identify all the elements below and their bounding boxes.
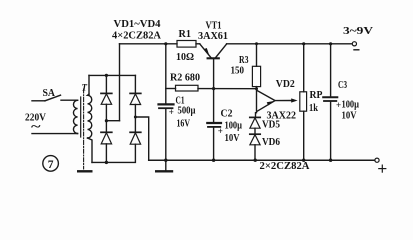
transistor VT1 emitter [200,44,211,58]
minus sign [354,49,359,51]
wire: R3 bottom lead [256,87,258,89]
diode VD1 (bridge top-left) [101,93,112,104]
node: C2 on bottom rail [212,159,215,162]
transistor VT1 base bar [208,57,219,59]
node: left column midpoint [105,119,108,122]
wire: bottom rail [149,159,375,161]
transistor VD2 collector lead [257,90,275,100]
wire: C1 bottom lead to ground [165,109,167,170]
wire: left column middle [105,104,107,132]
node: C1 on bottom rail [164,159,167,162]
resistor R2 [176,85,199,91]
wire: 220V top lead [32,100,45,102]
wire: left column bottom [105,144,107,163]
node: RP tap on top rail [302,42,305,45]
svg-text:+: + [169,107,174,117]
svg-text:500µ: 500µ [178,106,196,117]
svg-text:100µ: 100µ [225,121,243,132]
wire: 220V bottom lead [32,133,78,135]
wire: right column top [134,75,136,93]
svg-text:10V: 10V [342,111,358,122]
svg-text:150: 150 [231,66,245,77]
wire: bridge AC top node [89,74,135,76]
symbol: circled 7 [43,156,59,172]
transistor VD2 base bar [256,89,258,113]
svg-text:10V: 10V [225,133,241,144]
wire: C1 top lead [165,44,167,103]
svg-text:SA: SA [43,88,56,99]
transformer T primary winding [73,100,77,133]
wire: right column middle [134,105,136,133]
capacitor C1 plates [159,103,174,105]
svg-text:T: T [82,83,88,93]
ground (main) [156,170,172,172]
diode VD5 [250,117,260,128]
diode VD4 (bridge bottom-right) [130,132,141,144]
node: C1/R2 tap on top rail [164,42,167,45]
wire: switch to transformer primary [61,99,78,101]
svg-text:R1: R1 [179,29,192,40]
node: base/R2/C2 junction [212,87,215,90]
node: right column midpoint [134,116,137,119]
svg-text:VD2: VD2 [276,79,295,90]
wire: VD2 emitter to RP wiper [275,100,293,102]
resistor R1 [177,41,196,48]
svg-text:7: 7 [48,159,54,171]
node: VD6 on bottom rail [254,159,257,162]
switch SA blade [45,95,61,101]
svg-text:16V: 16V [177,119,191,130]
wire: C3 bottom lead [330,102,332,160]
svg-text:3~9V: 3~9V [343,26,374,37]
transistor VT1 emitter arrow [204,48,210,56]
wire: left column top [105,75,107,93]
svg-text:+: + [218,126,223,136]
wire: secondary bottom lead [88,138,93,162]
wire: C3 top lead [330,44,332,96]
wire: VT1 base / C2 vertical [213,59,215,122]
capacitor C2 plates [207,122,221,124]
wire: R1 to VT1 emitter [196,43,200,45]
wire: R2 to R3 node [198,88,257,90]
wire: right column bottom [92,144,135,162]
wire: left midpoint jog to rail vertical [106,120,119,122]
wire: right midpoint jog to bottom rail [135,117,148,160]
svg-text:R3: R3 [239,55,249,66]
node: C3 on bottom rail [329,159,332,162]
svg-text:3AX61: 3AX61 [198,31,228,42]
node: AC top / left column junction [105,74,108,77]
svg-text:2×2CZ82A: 2×2CZ82A [260,161,311,172]
potentiometer RP wiper arrow [291,98,297,102]
svg-text:R2 680: R2 680 [170,73,200,84]
wire: R3 top lead [256,44,258,67]
node: left column bottom on AC line [105,161,108,164]
svg-text:VD5: VD5 [262,120,280,131]
svg-text:+: + [336,100,341,110]
svg-text:VD1~VD4: VD1~VD4 [114,19,161,30]
node: R3 tap on top rail [255,42,258,45]
transistor VD2 emitter lead [257,101,275,111]
transformer core [80,97,82,137]
svg-text:~: ~ [31,119,41,134]
svg-text:RP: RP [310,90,323,101]
terminal: output positive [375,158,379,162]
wire: RP top lead [303,44,305,92]
capacitor C3 plates [323,96,337,98]
wire: top rail left section [120,43,178,45]
wire: VD5-VD6 link [254,128,256,134]
wire: VD6 bottom lead [254,145,256,160]
transistor VT1 collector [216,44,227,58]
wire: top rail right section [227,43,353,45]
node: R2/R3/VD2 junction [255,87,258,90]
transformer shield (dash-dot) [83,89,85,169]
wire: RP bottom lead [303,111,305,160]
wire: secondary top lead [88,75,90,95]
wire: R2 left lead [166,88,176,90]
diode VD2b (bridge top-right) [130,93,141,104]
transistor VD2 emitter arrow [267,101,274,106]
wire: rail vertical (bridge DC- to top rail) [119,44,121,121]
diode VD6 [250,134,260,145]
node: RP on bottom rail [302,159,305,162]
resistor R3 [252,66,260,86]
svg-text:VD6: VD6 [262,137,280,148]
node: C3 tap on top rail [329,42,332,45]
transformer T secondary winding [88,94,92,138]
wire: C2 bottom lead [213,128,215,160]
wire: VD5 top lead [255,113,257,118]
svg-text:C2: C2 [221,109,233,120]
terminal: output negative [352,42,356,46]
svg-text:C3: C3 [338,80,347,91]
ground (transformer shield) [78,170,91,172]
svg-text:10Ω: 10Ω [176,52,194,63]
plus sign [379,165,386,172]
potentiometer RP body [300,92,307,111]
svg-text:4×2CZ82A: 4×2CZ82A [112,30,161,41]
diode VD3 (bridge bottom-left) [101,132,112,144]
svg-text:100µ: 100µ [342,100,360,111]
svg-text:1k: 1k [309,103,318,114]
